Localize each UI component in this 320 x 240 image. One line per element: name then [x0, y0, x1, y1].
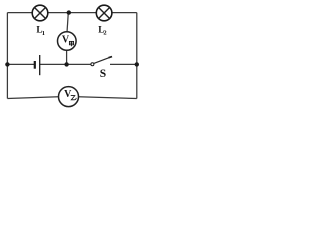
switch lever — [94, 57, 112, 64]
label L2 — [98, 24, 106, 36]
svg-text:2: 2 — [103, 30, 106, 37]
svg-text:S: S — [100, 68, 106, 80]
junction dot top (node between lamps) — [67, 10, 71, 14]
svg-text:V: V — [64, 89, 72, 100]
wire voltmeter-A branch upper — [67, 13, 68, 33]
voltmeter U-jia (top) — [58, 32, 77, 51]
junction dot middle (voltmeter branch to middle wire) — [64, 62, 68, 66]
svg-text:V: V — [62, 34, 70, 45]
lamp L1 — [32, 5, 48, 21]
switch pivot — [91, 63, 94, 66]
label L1 — [36, 25, 45, 37]
wire voltmeter-A branch lower — [66, 50, 68, 65]
wire middle (switch to right wire) — [110, 63, 137, 65]
battery cell long plate — [39, 55, 41, 75]
switch lever tip — [109, 57, 113, 58]
wire bottom — [7, 97, 136, 99]
wire middle (battery to switch pivot) — [40, 63, 91, 65]
wire middle (battery-switch row, left part) — [7, 63, 34, 65]
wire right — [136, 13, 138, 99]
wire top — [7, 12, 136, 14]
wire left — [6, 13, 8, 99]
voltmeter U-yi (bottom) — [59, 87, 79, 107]
subscript jia glyph — [69, 41, 73, 46]
subscript yi glyph — [71, 96, 76, 100]
junction dot left (node on left wire) — [5, 62, 9, 66]
svg-text:1: 1 — [42, 30, 45, 37]
lamp L2 — [96, 5, 112, 21]
battery cell short plate — [34, 61, 36, 69]
junction dot right (node on right wire) — [135, 62, 139, 66]
